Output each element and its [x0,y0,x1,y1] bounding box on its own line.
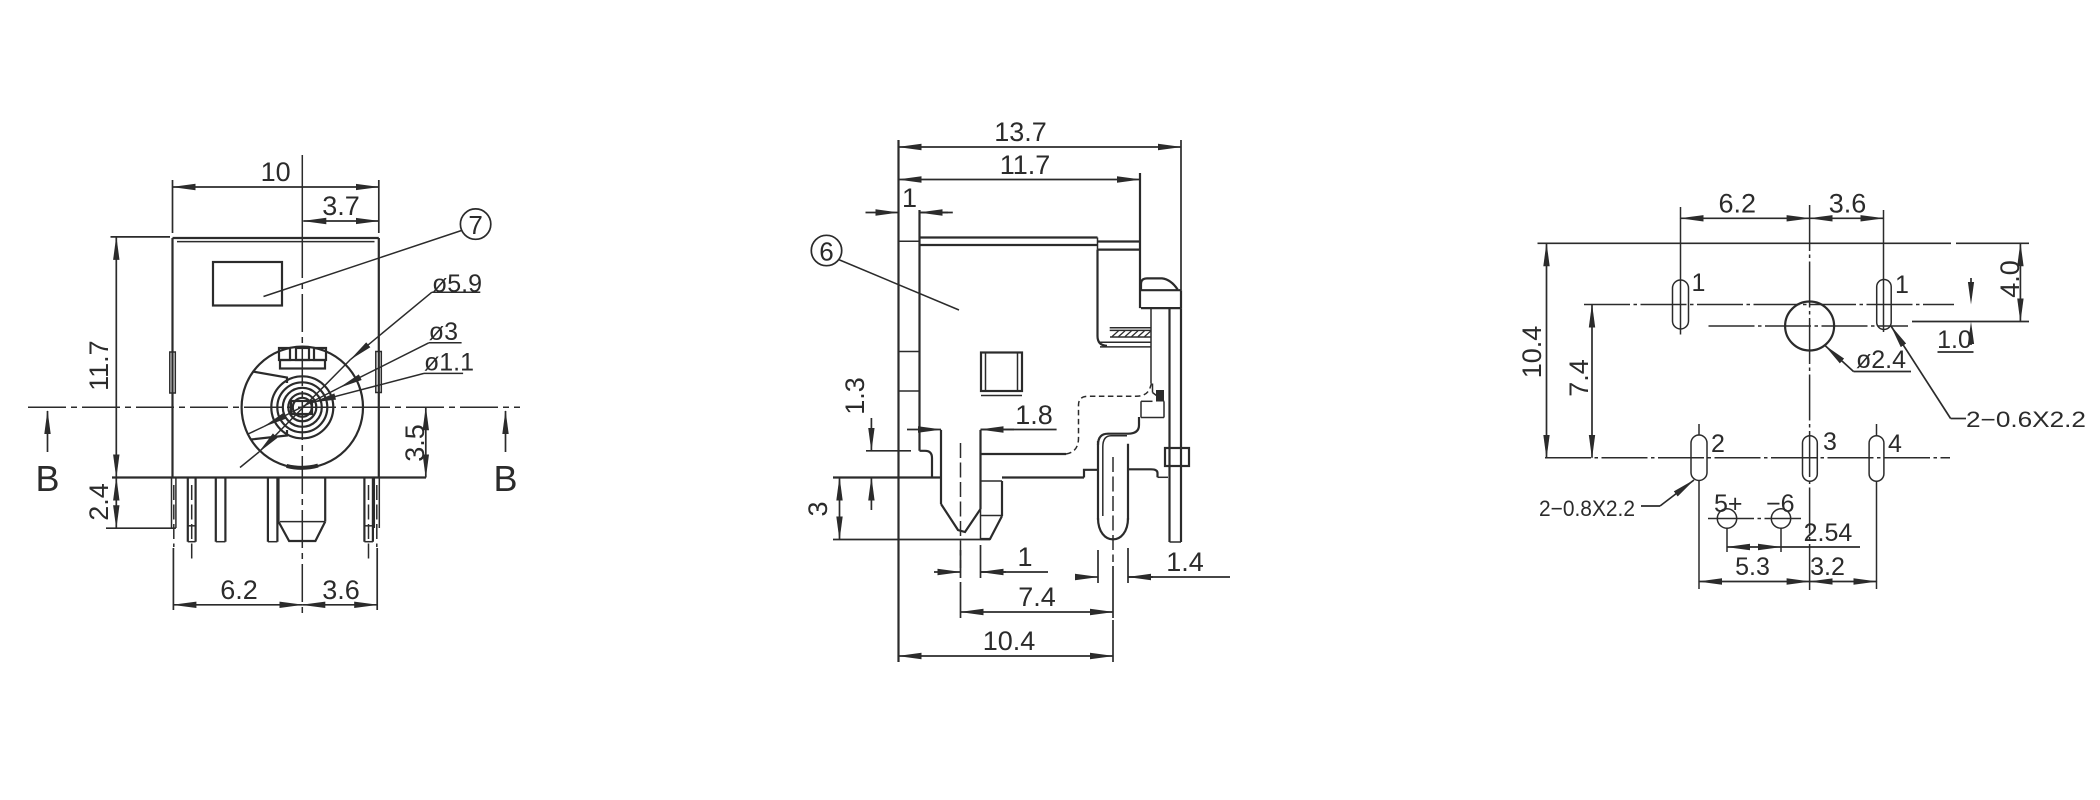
svg-text:1: 1 [1895,271,1909,299]
svg-text:10.4: 10.4 [983,626,1036,656]
svg-text:6: 6 [819,237,833,267]
svg-text:1.8: 1.8 [1015,400,1053,430]
svg-text:ø3: ø3 [429,318,458,346]
svg-text:2−0.8X2.2: 2−0.8X2.2 [1539,496,1635,521]
svg-text:2: 2 [1711,430,1725,458]
svg-text:6.2: 6.2 [1719,189,1757,219]
svg-text:3.6: 3.6 [1829,189,1867,219]
svg-text:1: 1 [902,183,917,213]
svg-text:2.54: 2.54 [1804,519,1853,547]
svg-text:4.0: 4.0 [1995,260,2025,298]
svg-text:1.3: 1.3 [840,377,870,415]
svg-text:1.4: 1.4 [1166,547,1204,577]
svg-text:7.4: 7.4 [1018,582,1056,612]
svg-text:2.4: 2.4 [84,483,114,521]
svg-text:ø1.1: ø1.1 [424,348,474,376]
svg-text:ø2.4: ø2.4 [1856,346,1906,374]
svg-text:1.0: 1.0 [1937,326,1972,354]
svg-text:3: 3 [803,501,833,516]
svg-text:11.7: 11.7 [84,340,114,391]
svg-text:10: 10 [261,157,291,187]
svg-text:11.7: 11.7 [1000,150,1051,180]
svg-text:7: 7 [468,210,482,240]
svg-text:10.4: 10.4 [1517,326,1547,379]
svg-text:1: 1 [1017,542,1032,572]
svg-text:ø5.9: ø5.9 [432,270,482,298]
svg-text:3.2: 3.2 [1810,553,1845,581]
svg-text:3.6: 3.6 [322,575,360,605]
svg-text:B: B [35,458,59,499]
svg-text:13.7: 13.7 [994,117,1047,147]
svg-text:5+: 5+ [1714,490,1743,518]
svg-text:3: 3 [1823,428,1837,456]
svg-text:4: 4 [1888,430,1902,458]
svg-text:B: B [493,458,517,499]
svg-text:3.5: 3.5 [400,424,430,462]
svg-text:3.7: 3.7 [322,191,360,221]
svg-text:2−0.6X2.2: 2−0.6X2.2 [1966,407,2086,432]
svg-text:1: 1 [1692,269,1706,297]
svg-text:5.3: 5.3 [1735,553,1770,581]
svg-text:−6: −6 [1766,490,1795,518]
svg-text:7.4: 7.4 [1564,359,1594,397]
svg-text:6.2: 6.2 [220,575,258,605]
